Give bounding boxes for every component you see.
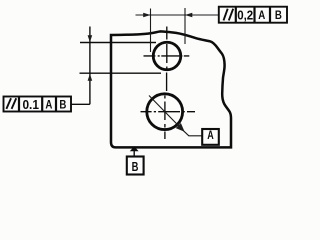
svg-text:0,2: 0,2: [237, 7, 253, 22]
svg-text:A: A: [207, 130, 214, 142]
svg-text:B: B: [132, 159, 139, 174]
svg-text:A: A: [258, 8, 265, 22]
svg-text:B: B: [59, 98, 66, 112]
svg-text:B: B: [275, 8, 282, 22]
svg-text:0.1: 0.1: [22, 97, 39, 112]
svg-text:A: A: [45, 98, 52, 112]
